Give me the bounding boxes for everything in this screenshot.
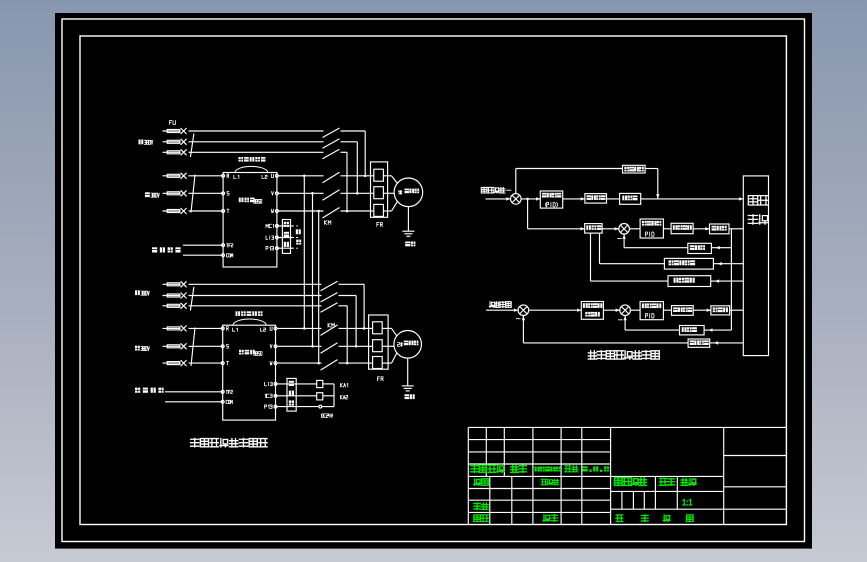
title cell design label <box>474 479 488 486</box>
wire to VFD2 <box>663 228 671 230</box>
node pressure setpoint label <box>489 302 511 308</box>
motor M2 circle <box>394 331 422 359</box>
label reactor circuit1 <box>239 157 266 162</box>
summing junction sum1 <box>511 194 522 205</box>
wire tap down to rowB <box>528 199 585 231</box>
inverter U2 reactor arc <box>233 319 267 325</box>
label KM circuit1 <box>325 221 331 225</box>
tie wire phase 1 between circuits <box>303 175 306 330</box>
title scale value 1:1 <box>682 497 692 507</box>
wire motor line 2 circuit2 segA <box>277 345 322 347</box>
wire sum1 up feedback <box>516 169 623 194</box>
label FR circuit2 <box>378 377 384 381</box>
contactor KM blade 1 circuit2 <box>321 325 338 336</box>
inner border frame <box>80 36 786 525</box>
outer border frame <box>62 19 805 542</box>
wire motor line 3 circuit1 segB <box>341 210 371 212</box>
wire 1C3 to KA2 <box>276 395 317 397</box>
summing junction sum3 <box>518 305 529 316</box>
inverter U2 input terminal R <box>221 327 228 331</box>
block pressure PID <box>640 302 663 320</box>
inverter U2 control terminal 1C3 <box>265 394 277 397</box>
wire bypass L2 circuit2 to bend <box>339 296 357 347</box>
wire VFD2 to FD fan <box>693 227 709 230</box>
fuse+wire supply L3 circuit1 bypass <box>163 149 324 155</box>
terminal strip circuit2 <box>287 378 296 411</box>
wire sum3 feedback furnace pressure <box>522 316 688 343</box>
contactor KM blade 3 circuit1 <box>323 208 340 219</box>
wire motor line 1 circuit1 segA <box>278 175 323 177</box>
wire LI3 to KA1 <box>276 383 317 385</box>
wire P13 line <box>276 405 335 408</box>
wire motor line 2 circuit1 segA <box>278 192 323 194</box>
title sheet glyph2 <box>687 515 694 522</box>
junction bypass-drop phase 2 circuit2 <box>355 345 358 348</box>
fuse+wire inverter input L1 circuit1 <box>163 173 224 179</box>
wire motor line 1 circuit2 segB <box>339 327 369 329</box>
block furnace pressure regulator <box>581 302 603 320</box>
wire furnace temp left <box>591 233 669 281</box>
inverter U2 control terminal LI3 <box>265 382 277 385</box>
block ID fan <box>711 306 730 315</box>
contactor KM blade 1 circuit1 <box>323 172 340 183</box>
title cell standardization label <box>541 479 559 485</box>
block damper1 <box>688 243 712 253</box>
inverter U2 output terminal V <box>270 344 277 348</box>
inverter U2 output terminal W <box>270 361 277 365</box>
wire damper1 from bus <box>711 246 731 249</box>
junction bypass-drop phase 3 circuit2 <box>346 362 349 365</box>
wire furnace temp from boiler <box>711 279 744 282</box>
label speed reference circuit2 <box>135 388 164 393</box>
fuse+wire supply L2 circuit2 bypass <box>163 293 322 299</box>
wire motor line 3 circuit1 segA <box>278 210 323 212</box>
wire speed ref circuit2 <box>165 392 223 402</box>
inverter U1 control terminal P13 <box>266 247 278 250</box>
wire O2 from boiler <box>713 262 743 265</box>
wire motor line 3 circuit2 segA <box>277 362 322 364</box>
terminal strip circuit1 <box>282 220 290 254</box>
title block grid lines <box>468 427 786 524</box>
label ground M1 <box>405 242 415 247</box>
junction bypass-drop phase 3 circuit1 <box>346 210 349 213</box>
feedback bus vertical <box>730 229 732 330</box>
disconnector blade bypass L1 circuit1 <box>323 128 340 138</box>
title cell signature label <box>565 466 578 472</box>
motor M1 circle <box>394 178 423 207</box>
inverter U2 box <box>223 325 276 420</box>
block coal-air ratio <box>585 224 602 234</box>
label reactor circuit2 <box>236 311 263 316</box>
inverter U2 input terminal S <box>221 344 228 348</box>
bus KA vertical <box>333 384 335 407</box>
minus sign sum2 <box>617 238 622 240</box>
title sheet-index glyph <box>663 515 670 522</box>
inverter U1 output terminal U <box>272 174 279 178</box>
label incoming 380V circuit2 lower <box>135 346 149 351</box>
wire furnace pressure from boiler <box>710 341 744 344</box>
label incoming 380V circuit2 top <box>135 290 149 295</box>
block VFD1 <box>585 194 607 204</box>
disconnector blade bypass L2 circuit2 <box>321 293 338 303</box>
fuse+wire inverter input L2 circuit2 <box>163 343 223 349</box>
wire sum1 to feedwater PID <box>521 197 540 200</box>
disconnector blade bypass L1 circuit2 <box>321 281 338 291</box>
wire KA2 to bus <box>323 395 334 397</box>
wire FR1 to motor M1 <box>388 176 398 211</box>
inverter U1 input terminal T <box>222 209 229 213</box>
title cell check label <box>474 503 488 510</box>
fuse+wire supply L2 circuit1 bypass <box>163 139 324 145</box>
inverter U2 model text <box>239 350 262 356</box>
tie wire phase 3 between circuits <box>317 210 320 365</box>
minus sign sum3 <box>516 318 521 320</box>
wire to sum4 <box>603 309 619 312</box>
ground symbol M1 <box>402 231 414 236</box>
wire FD fan to boiler <box>729 228 743 230</box>
title cell count label <box>489 465 505 472</box>
wire input to sum1 <box>486 197 511 200</box>
inverter U1 model text <box>239 198 262 204</box>
inverter U2 control terminal P13 <box>265 405 277 408</box>
wire motor line 1 circuit1 segB <box>341 175 371 177</box>
block VFD3 <box>672 306 694 316</box>
block feedwater regulator PID <box>540 191 562 208</box>
junction bypass-drop phase 1 circuit1 <box>364 175 367 178</box>
label KM circuit2 <box>328 323 334 327</box>
summing junction sum2 <box>619 224 630 235</box>
label FR circuit1 <box>377 223 383 227</box>
wire sum4 to pressure PID <box>630 309 640 311</box>
wire O2 left to ratio <box>600 233 665 264</box>
disconnector blade bypass L2 circuit1 <box>323 139 340 149</box>
label DC24V <box>322 414 333 418</box>
label ground M2 <box>405 394 415 399</box>
relay contact KA1 <box>317 380 348 387</box>
wire bypass L3 circuit2 to bend <box>339 306 348 363</box>
fuse+wire inverter input L3 circuit2 <box>163 360 223 366</box>
wire speed ref circuit1 <box>183 245 223 255</box>
block flue gas O2 <box>664 258 713 269</box>
wire damper2 from bus <box>704 328 731 331</box>
fuse+wire inverter input L1 circuit2 <box>163 325 223 331</box>
title cell stage-mark label <box>615 478 647 486</box>
inverter U1 box <box>223 173 277 268</box>
inverter U2 top terminal labels <box>233 328 266 331</box>
FR1 heater element phase 3 <box>371 204 388 216</box>
contactor KM blade 2 circuit2 <box>321 343 338 354</box>
inverter U2 input terminal T <box>221 361 228 365</box>
fuse+wire supply L3 circuit2 bypass <box>163 303 322 309</box>
wire bypass L1 circuit1 to bend <box>341 131 366 176</box>
relay contact KA2 <box>317 393 348 400</box>
wire control 2 circuit1 <box>277 237 293 239</box>
title cell weight label <box>660 478 675 485</box>
inverter U1 output terminal V <box>272 191 279 195</box>
wire motor line 2 circuit1 segB <box>341 192 371 194</box>
FR2 heater element phase 3 <box>369 357 389 369</box>
summing junction sum4 <box>620 305 631 316</box>
thermal relay FR1 box <box>371 162 388 217</box>
wire sum2 to airflow PID <box>629 228 640 230</box>
block airflow regulator PID <box>640 219 663 238</box>
fuse+wire inverter input L2 circuit1 <box>163 190 224 196</box>
label FU fuse group circuit1 <box>170 121 176 125</box>
wire steam flow to rowA <box>645 169 659 199</box>
wire pump to boiler <box>641 197 744 200</box>
title cell zone label <box>511 465 527 472</box>
title cell mark label <box>471 465 487 472</box>
wire VFD3 to ID fan <box>693 309 711 312</box>
wire VFD1 to pump <box>607 198 620 200</box>
wire control 1 circuit1 <box>277 225 293 227</box>
caption combustion control title <box>588 351 659 359</box>
wire bypass L3 circuit1 to bend <box>341 152 348 211</box>
wire motor line 3 circuit2 segB <box>339 362 369 364</box>
wire FR2 to motor M2 <box>388 328 397 363</box>
label incoming 380V circuit1 top <box>139 140 153 145</box>
FR1 heater element phase 1 <box>371 169 388 181</box>
disconnector blade bypass L3 circuit2 <box>321 303 338 313</box>
inverter U1 speed-ref terminals <box>222 244 233 257</box>
block furnace pressure <box>688 339 710 347</box>
junction bypass-drop phase 2 circuit1 <box>356 192 359 195</box>
inverter U1 input terminal S <box>222 191 229 195</box>
inverter U1 output terminal W <box>272 209 279 213</box>
title cell process label <box>474 515 488 522</box>
fuse+wire inverter input L3 circuit1 <box>163 208 224 214</box>
title sheet-total glyph <box>616 515 623 522</box>
switch linkage bar circuit2 lower <box>191 328 195 367</box>
title cell change-file-no label <box>535 467 561 472</box>
minus sign sum1 <box>506 189 511 191</box>
switch linkage bar circuit1 lower <box>191 175 195 213</box>
disconnector blade bypass L3 circuit1 <box>323 149 340 159</box>
ground wire M1 <box>407 207 409 232</box>
contactor KM blade 2 circuit1 <box>323 190 340 201</box>
label incoming 380V circuit1 lower <box>145 192 159 197</box>
wire control 3 circuit1 <box>277 247 293 249</box>
wire input to sum3 <box>486 309 518 312</box>
wire sum4 feedback from damper2 <box>623 316 679 331</box>
inverter U1 reactor arc <box>235 166 268 172</box>
interlock dashed note circuit1 <box>292 226 302 248</box>
block feed pump <box>620 193 641 204</box>
node steam drum level label <box>481 187 505 193</box>
wire ratio to sum2 <box>602 227 619 230</box>
title cell date label <box>583 466 610 472</box>
fuse+wire supply L1 circuit1 bypass <box>163 128 324 134</box>
title cell scale label <box>681 478 696 485</box>
inverter U1 top terminal labels <box>234 175 267 178</box>
ground wire M2 <box>407 358 409 386</box>
contactor KM blade 3 circuit2 <box>321 360 338 371</box>
wire sum3 to furnace pressure regulator <box>529 309 582 312</box>
switch linkage bar circuit1 bypass <box>190 134 194 158</box>
tap junction rowA <box>526 198 529 201</box>
label speed reference circuit1 <box>152 247 181 252</box>
inverter U1 control terminal LI3 <box>266 236 278 239</box>
wire bypass L2 circuit1 to bend <box>341 142 358 194</box>
inverter U1 control terminal MC1 <box>266 224 278 227</box>
svg-text:1:1: 1:1 <box>682 497 692 507</box>
block boiler body <box>743 176 768 356</box>
FR2 heater element phase 2 <box>369 340 389 352</box>
wire KA1 to bus <box>323 383 334 385</box>
wire sum2 feedback from damper1 <box>622 234 687 248</box>
block VFD2 <box>671 223 693 233</box>
title sheet glyph <box>642 515 649 522</box>
wire motor line 2 circuit2 segB <box>339 345 369 347</box>
title cell approve label <box>543 515 557 522</box>
wire bypass L1 circuit2 to bend <box>339 284 365 328</box>
wire motor line 1 circuit2 segA <box>277 327 322 329</box>
inverter U1 input terminal R <box>222 174 229 178</box>
junction bypass-drop phase 1 circuit2 <box>363 327 366 330</box>
FR1 heater element phase 2 <box>371 187 388 199</box>
FR2 heater element phase 1 <box>369 322 389 334</box>
caption inverter wiring title <box>191 439 267 447</box>
block damper2 <box>680 326 705 335</box>
minus sign sum4 <box>618 319 623 321</box>
switch linkage bar circuit2 bypass <box>190 287 194 311</box>
wire ID fan to boiler <box>730 309 744 311</box>
ground symbol M2 <box>402 386 414 391</box>
wire to VFD3 <box>663 309 671 311</box>
block FD fan <box>710 224 730 234</box>
inverter U2 output terminal U <box>270 327 277 331</box>
inverter U2 speed-ref terminals <box>221 390 232 403</box>
block steam flow <box>623 165 646 173</box>
wire to VFD1 <box>563 197 585 200</box>
tie wire phase 2 between circuits <box>311 192 314 348</box>
thermal relay FR2 box <box>369 315 389 369</box>
fuse+wire supply L1 circuit2 bypass <box>163 281 322 287</box>
block furnace temperature <box>668 276 711 287</box>
